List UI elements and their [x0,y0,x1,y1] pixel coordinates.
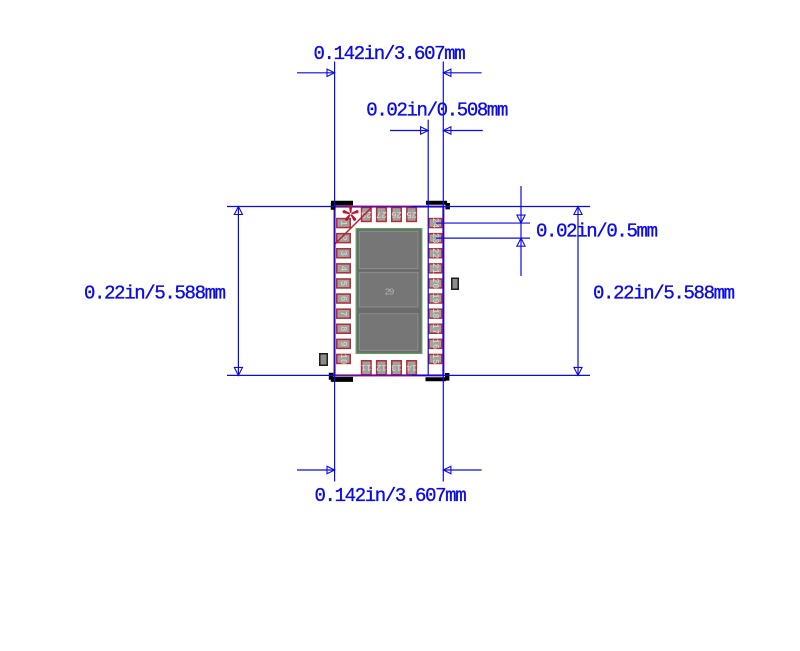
pad 28 [362,208,371,222]
svg-text:21: 21 [430,263,440,274]
svg-text:0.22in/5.588mm: 0.22in/5.588mm [593,283,735,305]
pad 9 [337,339,350,348]
dimension pad length 0.02in/0.508mm [366,100,508,376]
svg-text:26: 26 [391,209,402,219]
pad 2 [337,234,350,243]
svg-text:27: 27 [376,209,387,219]
pad 22 [429,249,442,258]
svg-text:8: 8 [338,326,348,331]
pad 6 [337,294,350,303]
extension line left vertical [333,206,335,376]
svg-text:0.142in/3.607mm: 0.142in/3.607mm [314,43,466,65]
pad 7 [337,309,350,318]
dimension top width 0.142in/3.607mm [297,43,482,481]
svg-text:6: 6 [338,296,348,301]
thermal pad 29 paste region bottom [359,314,418,351]
svg-text:1: 1 [338,220,348,225]
svg-text:0.22in/5.588mm: 0.22in/5.588mm [84,283,226,305]
svg-text:19: 19 [430,293,440,304]
svg-text:0.142in/3.607mm: 0.142in/3.607mm [315,485,467,507]
svg-text:4: 4 [338,266,348,271]
pad 8 [337,324,350,333]
pad 16 [429,339,442,348]
pad 14 [407,361,416,375]
svg-text:0.02in/0.5mm: 0.02in/0.5mm [536,221,658,243]
pad 10 [337,355,350,364]
pin-1 chamfer diagonal [335,207,372,244]
pad 12 [377,361,386,375]
pad 17 [429,324,442,333]
svg-text:16: 16 [430,339,440,350]
pad 4 [337,264,350,273]
corner mark top-left [331,201,353,210]
svg-text:9: 9 [338,341,348,346]
pad 13 [392,361,401,375]
pad 27 [377,208,386,222]
via marker right [452,278,459,289]
thermal pad 29 paste region middle [359,272,418,307]
dimension bottom width 0.142in/3.607mm [297,466,482,507]
svg-text:18: 18 [430,308,440,319]
pad 21 [429,264,442,273]
pad 26 [392,208,401,222]
svg-text:15: 15 [430,354,440,365]
svg-text:20: 20 [430,278,440,289]
svg-text:7: 7 [338,311,348,316]
via marker left [320,354,328,366]
pad 11 [362,361,371,375]
pad 3 [337,249,350,258]
svg-text:11: 11 [361,362,372,372]
svg-text:25: 25 [406,209,417,219]
pad 24 [429,219,442,228]
dimension right height 0.22in/5.588mm [412,207,735,376]
svg-text:10: 10 [338,354,348,365]
svg-text:3: 3 [338,251,348,256]
svg-text:5: 5 [338,281,348,286]
corner mark bottom-left [329,373,353,382]
svg-text:12: 12 [376,362,387,372]
package outline [335,207,444,376]
pad 19 [429,294,442,303]
pad 20 [429,279,442,288]
thermal pad 29 outline [356,229,422,354]
pad 15 [429,355,442,364]
svg-text:14: 14 [406,362,417,372]
corner mark top-right [426,201,450,210]
svg-text:13: 13 [391,362,402,372]
thermal pad 29 paste region top [359,231,418,268]
dimension left height 0.22in/5.588mm [84,207,335,376]
extension line right vertical [443,206,445,376]
pad 25 [407,208,416,222]
svg-text:22: 22 [430,248,440,259]
svg-text:0.02in/0.508mm: 0.02in/0.508mm [366,100,508,122]
corner mark bottom-right [425,373,449,381]
pad 23 [429,234,442,243]
dimension pad pitch 0.02in/0.5mm [436,186,658,276]
pad 1 [337,219,350,228]
svg-text:17: 17 [430,323,440,334]
pad 18 [429,309,442,318]
pin-1 marker asterisk [343,205,359,220]
pad 5 [337,279,350,288]
